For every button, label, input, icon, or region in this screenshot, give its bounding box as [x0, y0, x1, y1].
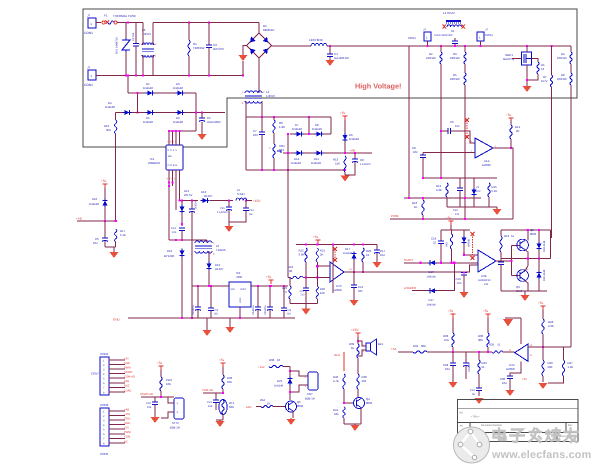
junction R1 top	[188, 22, 190, 24]
ground at bridge left	[239, 55, 248, 61]
wire CON2 pin 4	[109, 424, 125, 426]
wire PA2 stub	[256, 406, 261, 408]
wire R41 bottom	[343, 418, 345, 424]
wire driver gnd rail	[501, 290, 547, 292]
capacitor C30	[507, 376, 513, 388]
potentiometer VR1 body	[273, 144, 275, 158]
wire CON2 pin 5	[109, 428, 125, 430]
svg-text:LOADER: LOADER	[404, 286, 417, 290]
junction D22 bottom node	[289, 391, 291, 393]
junction IC1 pin1 bend	[168, 185, 170, 187]
svg-text:C9: C9	[450, 120, 454, 124]
junction R12 out	[510, 147, 512, 149]
wire R20 bottom to out	[362, 262, 364, 272]
wire IGBT source	[526, 65, 528, 84]
svg-text:VOUT: VOUT	[240, 288, 247, 291]
junction cmp bus R2leg	[440, 177, 442, 179]
connector J6 CON1 body	[477, 32, 484, 41]
wire buz red stub	[343, 352, 345, 371]
wire trig rail	[404, 197, 481, 199]
svg-text:51K: 51K	[335, 162, 340, 166]
svg-text:1N4148: 1N4148	[292, 127, 302, 131]
no-connect marker near U?C	[333, 247, 337, 262]
junction C18 start	[440, 262, 442, 264]
svg-text:CN?: CN?	[307, 392, 313, 396]
wire speaker pin2	[358, 350, 366, 356]
heatsink X marks	[443, 25, 466, 29]
zener D21	[471, 188, 476, 197]
wire osc rail2	[427, 351, 492, 353]
wire bridge right to L2	[272, 45, 312, 47]
svg-text:CON7: CON7	[91, 372, 99, 376]
junction +5V rail	[270, 285, 272, 287]
wire D10 top	[104, 188, 106, 199]
resistor R3	[464, 52, 466, 64]
resistor R5 gate	[537, 62, 539, 74]
svg-text:+5v: +5v	[340, 111, 346, 115]
wire RV1 top lead	[125, 23, 127, 38]
resistor R34	[478, 360, 480, 374]
junction C3 bottom	[208, 74, 210, 76]
junction lattice left rail	[287, 169, 289, 171]
junction fuse node	[127, 22, 129, 24]
wire CON2 pin 3	[109, 419, 125, 421]
junction R20 out	[362, 271, 364, 273]
svg-text:GND: GND	[113, 318, 121, 322]
svg-text:D16: D16	[167, 249, 173, 253]
svg-text:9999: 9999	[168, 141, 178, 144]
wire IC1 pin bend	[169, 130, 196, 132]
resistor PA2	[261, 405, 273, 407]
svg-text:0w: 0w	[249, 213, 252, 216]
wire L6 bottom right to D19	[208, 251, 210, 262]
wire PW1 bottom	[160, 391, 162, 397]
capacitor C14	[179, 228, 185, 240]
IGBT Q1	[522, 52, 532, 65]
svg-text:C15: C15	[220, 207, 225, 210]
svg-text:1N4148: 1N4148	[343, 252, 353, 255]
wire RV1 bottom lead	[125, 52, 127, 76]
diode D3	[176, 90, 185, 95]
wire SW2 pin2	[161, 412, 174, 418]
svg-text:J?: J?	[423, 28, 426, 32]
svg-text:LM339: LM339	[482, 163, 491, 167]
resistor R16	[422, 200, 424, 215]
junction lattice left top	[287, 133, 289, 135]
wire R5b long down	[464, 85, 466, 219]
svg-text:1N4148: 1N4148	[143, 86, 153, 90]
resistor R21	[316, 248, 318, 262]
svg-text:J?: J?	[485, 28, 488, 32]
diode D10	[102, 199, 107, 208]
op-amp U2C LM358	[330, 262, 344, 282]
svg-text:R32: R32	[413, 344, 419, 348]
ground RT1	[216, 420, 225, 427]
capacitor C10	[457, 178, 463, 203]
svg-text:181: 181	[334, 412, 339, 416]
junction C12	[245, 199, 247, 201]
wire fb top rail	[296, 244, 318, 246]
svg-text:8050: 8050	[530, 232, 537, 236]
wire Q4 gnd join	[344, 423, 361, 425]
svg-text:+15V: +15V	[258, 365, 265, 369]
junction VR1 bottom	[273, 169, 275, 171]
ground below C4	[326, 57, 335, 66]
svg-text:103: 103	[172, 231, 177, 234]
title block divider v3	[556, 433, 558, 442]
thermistor RT1 body	[222, 400, 224, 414]
capacitor C22	[195, 286, 201, 318]
resistor R35	[492, 351, 503, 353]
zener D12	[179, 205, 184, 214]
wire choke left bottom	[142, 55, 144, 76]
wire R1 top	[188, 23, 190, 40]
resistor R15	[488, 183, 490, 197]
wire D6 top	[344, 120, 346, 134]
svg-text:+5V: +5V	[124, 427, 129, 430]
resistor R25	[289, 286, 291, 299]
junction pwm R5leg	[464, 218, 466, 220]
svg-text:41uF/400V: 41uF/400V	[207, 120, 221, 124]
svg-text:104: 104	[287, 313, 292, 316]
svg-text:CON1: CON1	[84, 31, 93, 35]
junction D10 AB	[104, 220, 106, 222]
svg-text:3.9K: 3.9K	[299, 253, 305, 257]
junction C4 top	[329, 45, 331, 47]
wire L6 left vertical	[191, 240, 193, 318]
wire bridge bottom to L4	[258, 58, 260, 92]
svg-text:D20 4148: D20 4148	[543, 269, 546, 281]
resistor R12	[510, 125, 512, 139]
resistor R6	[273, 120, 275, 133]
svg-text:157V: 157V	[541, 79, 548, 83]
svg-text:+5v: +5v	[448, 309, 454, 313]
wire bottom rail	[96, 75, 243, 77]
junction D17 out	[353, 271, 355, 273]
wire R36L bottom	[222, 389, 224, 393]
svg-text:471: 471	[455, 213, 460, 216]
svg-text:LM358: LM358	[333, 288, 342, 292]
wire D20 top	[538, 259, 540, 271]
svg-text:+5v: +5v	[266, 275, 272, 279]
op-amp U2B LM339	[478, 250, 496, 272]
capacitor C9	[441, 128, 462, 134]
wire R33 top	[452, 318, 454, 333]
wire R16 top	[422, 198, 424, 200]
wire Q4 emitter	[360, 408, 362, 424]
svg-text:151: 151	[457, 281, 462, 285]
wire D16 bottom long	[181, 257, 183, 318]
wire R38f right	[283, 366, 290, 368]
diode D16s	[428, 260, 437, 265]
ground below C5	[198, 122, 207, 140]
svg-text:TRIG: TRIG	[124, 418, 130, 421]
svg-text:211: 211	[484, 283, 489, 286]
junction R33 osc	[452, 351, 454, 353]
svg-text:MB251K: MB251K	[263, 28, 275, 32]
wire PW1 top	[160, 370, 162, 377]
wire U2B out	[496, 260, 512, 262]
wire top rail choke to bridge	[153, 22, 259, 24]
svg-text:C2 104: C2 104	[132, 32, 135, 41]
wire R3 top	[464, 46, 466, 52]
svg-text:4.3K: 4.3K	[436, 188, 442, 192]
svg-text:PWM: PWM	[124, 431, 131, 434]
wire driver right side	[550, 230, 552, 259]
ground below C30L	[151, 412, 160, 423]
svg-text:+5v: +5v	[101, 179, 107, 183]
wire R2 long down	[440, 64, 442, 178]
junction start label end	[420, 262, 422, 264]
svg-text:C29/473: C29/473	[468, 362, 471, 372]
capacitor C19	[461, 272, 467, 290]
connector J1 CON1 (line)	[88, 18, 96, 28]
junction IC1 pin2 top	[171, 130, 173, 132]
svg-text:104: 104	[445, 367, 450, 371]
svg-text:68: 68	[289, 269, 293, 273]
resistor R17	[115, 229, 117, 242]
resistor R19	[500, 236, 502, 252]
svg-text:C1: C1	[451, 29, 455, 33]
junction C15	[228, 199, 230, 201]
svg-text:D10: D10	[92, 197, 98, 201]
wire analog gnd arm	[505, 317, 521, 319]
wire C6 R17 join	[105, 246, 116, 248]
wire U2D vplus	[520, 318, 522, 344]
junction sec C7	[261, 116, 263, 118]
svg-text:+5v: +5v	[313, 235, 319, 239]
wire +AB stub	[77, 220, 116, 222]
svg-text:RF107: RF107	[215, 267, 224, 271]
svg-text:PWM: PWM	[124, 367, 131, 370]
svg-text:J?: J?	[87, 14, 91, 18]
junction R17 AB	[115, 220, 117, 222]
ground below C6 R17	[110, 247, 119, 258]
wire IC pin4 to D13	[180, 170, 199, 201]
svg-text:+5v: +5v	[483, 309, 489, 313]
transistor Q3	[517, 270, 529, 282]
svg-text:Re: Re	[460, 412, 464, 415]
svg-text:4321: 4321	[167, 178, 177, 181]
svg-text:BZ1: BZ1	[378, 342, 384, 346]
svg-text:Rev: Rev	[568, 424, 573, 427]
wire IC1 top pin 3	[175, 131, 177, 145]
junction RV1 bottom	[125, 74, 127, 76]
svg-text:10K: 10K	[227, 380, 232, 384]
ground below C19	[460, 290, 469, 298]
bridge D1 diode low-left	[250, 49, 256, 55]
junction U2C pwr	[332, 243, 334, 245]
svg-text:C8: C8	[360, 158, 364, 162]
wire R3 R5 join	[464, 64, 466, 73]
power +15V buzzer	[356, 333, 361, 337]
wire R37 top	[563, 347, 565, 360]
svg-text:D17: D17	[429, 298, 435, 302]
wire CON3 pin 4	[109, 373, 125, 375]
wire base Q2	[512, 245, 520, 247]
wire IC1 bottom pin 7	[175, 170, 177, 186]
svg-text:+15V: +15V	[253, 199, 261, 203]
svg-text:D17: D17	[345, 247, 351, 251]
wire U2C output long	[344, 271, 470, 273]
junction lattice row1 left	[127, 74, 129, 76]
buzzer BZ1	[366, 339, 377, 355]
junction J6 rail	[479, 45, 481, 47]
junction buzzer node	[357, 340, 359, 342]
transistor Q2	[517, 239, 529, 251]
wire com-ad rail	[203, 392, 223, 394]
junction D16 top	[181, 239, 183, 241]
power +5V RT1	[221, 363, 226, 367]
diode D7	[295, 131, 304, 136]
svg-text:222: 222	[301, 294, 306, 297]
wire R25 bottom	[289, 299, 291, 303]
wire R30d bottom	[451, 249, 453, 263]
svg-text:BUZ: BUZ	[124, 385, 130, 388]
wire lattice right drop	[195, 93, 197, 113]
wire D19 to VIN rail	[208, 270, 210, 286]
wire R30d top	[451, 230, 453, 234]
svg-text:CON5: CON5	[100, 452, 109, 456]
junction R36 input	[542, 346, 544, 348]
resistor R5b	[464, 73, 466, 85]
ground below C28	[449, 379, 458, 388]
wire buzzer top	[357, 337, 359, 344]
diode D20	[536, 271, 541, 280]
svg-text:1N4148: 1N4148	[311, 161, 321, 165]
svg-text:104: 104	[147, 406, 152, 409]
svg-text:10u: 10u	[93, 241, 98, 245]
junction R22 top	[305, 243, 307, 245]
diode D16	[179, 249, 184, 258]
svg-text:2K: 2K	[516, 129, 520, 133]
svg-text:PAD: PAD	[446, 242, 449, 247]
wire R26 bottom	[316, 299, 318, 303]
svg-text:2uF/275: 2uF/275	[213, 47, 224, 51]
wire R16 bottom	[422, 215, 424, 219]
junction C1 rail	[454, 45, 456, 47]
svg-text:561: 561	[358, 289, 363, 293]
wire start line	[404, 262, 478, 264]
wire J5 to rail	[427, 41, 429, 46]
zener C15 leg	[226, 201, 232, 217]
title block outer frame	[458, 400, 579, 442]
wire L4 top winding	[258, 92, 260, 93]
wire bridge left to ground	[243, 46, 247, 56]
wire C31 RT1 join	[216, 419, 223, 421]
junction D24 inplus	[463, 254, 465, 256]
wire C18 bottom	[440, 248, 442, 263]
wire CON3 pin 6	[109, 382, 125, 384]
wire RT1 bottom	[222, 414, 224, 420]
svg-text:102: 102	[362, 379, 367, 383]
wire R28 top bend	[542, 310, 544, 319]
resistor R26	[316, 286, 318, 299]
junction R36 osc	[487, 351, 489, 353]
wire choke left top	[142, 23, 144, 45]
wire CON2 pin 8	[109, 442, 125, 444]
capacitor C25d	[498, 259, 504, 291]
connector J2 CON1 (neutral)	[88, 70, 96, 80]
svg-text:TRANS: TRANS	[216, 248, 226, 252]
capacitor C3	[206, 23, 212, 76]
no-connect marker U2B	[471, 232, 475, 260]
svg-text:C12: C12	[249, 209, 254, 212]
resistor R36r	[542, 360, 544, 376]
zener D17	[351, 252, 356, 261]
diode D22	[287, 377, 292, 386]
wire R12 bottom	[510, 139, 512, 148]
wire driver top rail	[501, 229, 551, 231]
junction pwm R16	[422, 218, 424, 220]
svg-text:C31: C31	[470, 389, 475, 392]
wire J6 to rail	[480, 41, 482, 46]
wire R15 bottom	[488, 197, 490, 207]
power +5V PW1	[159, 366, 164, 370]
wire R8 long down	[570, 85, 572, 347]
diode D19	[206, 262, 211, 271]
junction IC2 gnd	[239, 317, 241, 319]
ground below C31b	[475, 398, 484, 404]
resistor R42	[357, 374, 359, 389]
wire D10 bottom	[104, 207, 106, 221]
title block line 1	[458, 408, 579, 410]
wire VOUT rail	[251, 285, 288, 287]
junction C11 top	[191, 199, 193, 201]
svg-text:2K: 2K	[320, 253, 324, 257]
junction pin4 wire	[178, 199, 180, 201]
resistor R39	[357, 344, 359, 358]
wire U2C out to inminus	[470, 265, 478, 273]
junction C19 top	[463, 271, 465, 273]
wire R39 bottom	[357, 358, 359, 374]
svg-text:100/1W: 100/1W	[557, 77, 567, 81]
wire Q2 emitter to node	[525, 250, 528, 259]
wire R42 bottom	[357, 389, 359, 398]
junction AB node	[344, 152, 346, 154]
wire secondary bottom rail	[246, 169, 345, 171]
svg-text:CON4: CON4	[100, 352, 109, 356]
junction R1 bottom	[188, 74, 190, 76]
transistor Q4	[354, 398, 365, 409]
junction D22 top node	[289, 370, 291, 372]
power +5V above D6	[343, 116, 348, 120]
svg-text:LM358: LM358	[506, 367, 515, 371]
capacitor C12	[243, 201, 249, 217]
wire IC1 bottom pin 8	[179, 170, 181, 186]
capacitor C26	[281, 286, 287, 318]
junction C25 top	[269, 285, 271, 287]
wire RT long down	[551, 87, 553, 238]
wire CON2 pin 1	[109, 410, 125, 412]
svg-text:1N4148: 1N4148	[105, 105, 115, 109]
junction inplus tap	[316, 265, 318, 267]
svg-text:30K: 30K	[421, 344, 426, 348]
junction C3 top	[208, 22, 210, 24]
wire C10 bottom	[459, 203, 461, 207]
wire to opamp inplus	[317, 265, 330, 267]
wire lattice mid leg	[308, 117, 310, 134]
svg-text:GND: GND	[124, 362, 130, 365]
svg-text:FAN: FAN	[246, 405, 251, 409]
svg-text:CON2: CON2	[100, 403, 109, 407]
wire R36r bottom	[542, 376, 544, 382]
bridge D1 diode up-right	[263, 37, 269, 43]
svg-text:5.1K: 5.1K	[120, 233, 126, 237]
svg-text:START-AD: START-AD	[140, 393, 153, 396]
svg-text:104: 104	[380, 253, 385, 257]
wire R17 bottom	[115, 242, 117, 247]
